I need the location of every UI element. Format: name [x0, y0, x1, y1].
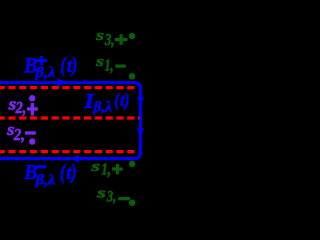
svg-text:1,: 1,: [101, 160, 111, 179]
dot s3+: [129, 33, 136, 40]
label s2+: [8, 95, 38, 117]
svg-text:2,: 2,: [13, 125, 25, 144]
svg-text:): ): [123, 90, 129, 111]
arrow top (rightward): [56, 78, 69, 86]
svg-text:): ): [69, 159, 76, 184]
svg-text:β,λ: β,λ: [35, 172, 56, 188]
dot s1+: [129, 161, 136, 168]
arrow vertical upper (downward): [137, 96, 144, 105]
arrow bottom (leftward): [70, 155, 80, 163]
svg-text:): ): [70, 52, 77, 77]
svg-text:s: s: [96, 185, 106, 201]
svg-text:3,: 3,: [106, 188, 116, 205]
red dashed line 3: [0, 150, 136, 153]
label s3+: [95, 28, 127, 49]
svg-text:3,: 3,: [104, 30, 114, 49]
dot s2-: [29, 138, 36, 145]
label B- beta lambda (t): [23, 159, 76, 188]
svg-text:β,λ: β,λ: [92, 98, 112, 115]
label s3-: [96, 185, 130, 205]
svg-text:s: s: [95, 28, 104, 44]
dot s2+: [29, 95, 36, 102]
svg-text:s: s: [95, 54, 104, 70]
svg-text:2,: 2,: [15, 98, 27, 117]
label I beta lambda (t): [83, 89, 129, 115]
svg-text:s: s: [90, 159, 100, 175]
svg-text:β,λ: β,λ: [34, 65, 55, 81]
label s1-: [95, 54, 126, 75]
label s2-: [6, 120, 35, 144]
red dashed line 2: [0, 116, 139, 119]
dot s1-: [129, 73, 136, 80]
arrow vertical lower (downward): [137, 128, 144, 138]
dot s3-: [129, 200, 136, 207]
label B+ beta lambda (t): [23, 52, 77, 81]
svg-text:1,: 1,: [105, 56, 114, 75]
wire contour B (blue closed-time path): [0, 83, 141, 159]
label s1+: [90, 159, 122, 179]
red dashed line 1: [0, 86, 136, 89]
